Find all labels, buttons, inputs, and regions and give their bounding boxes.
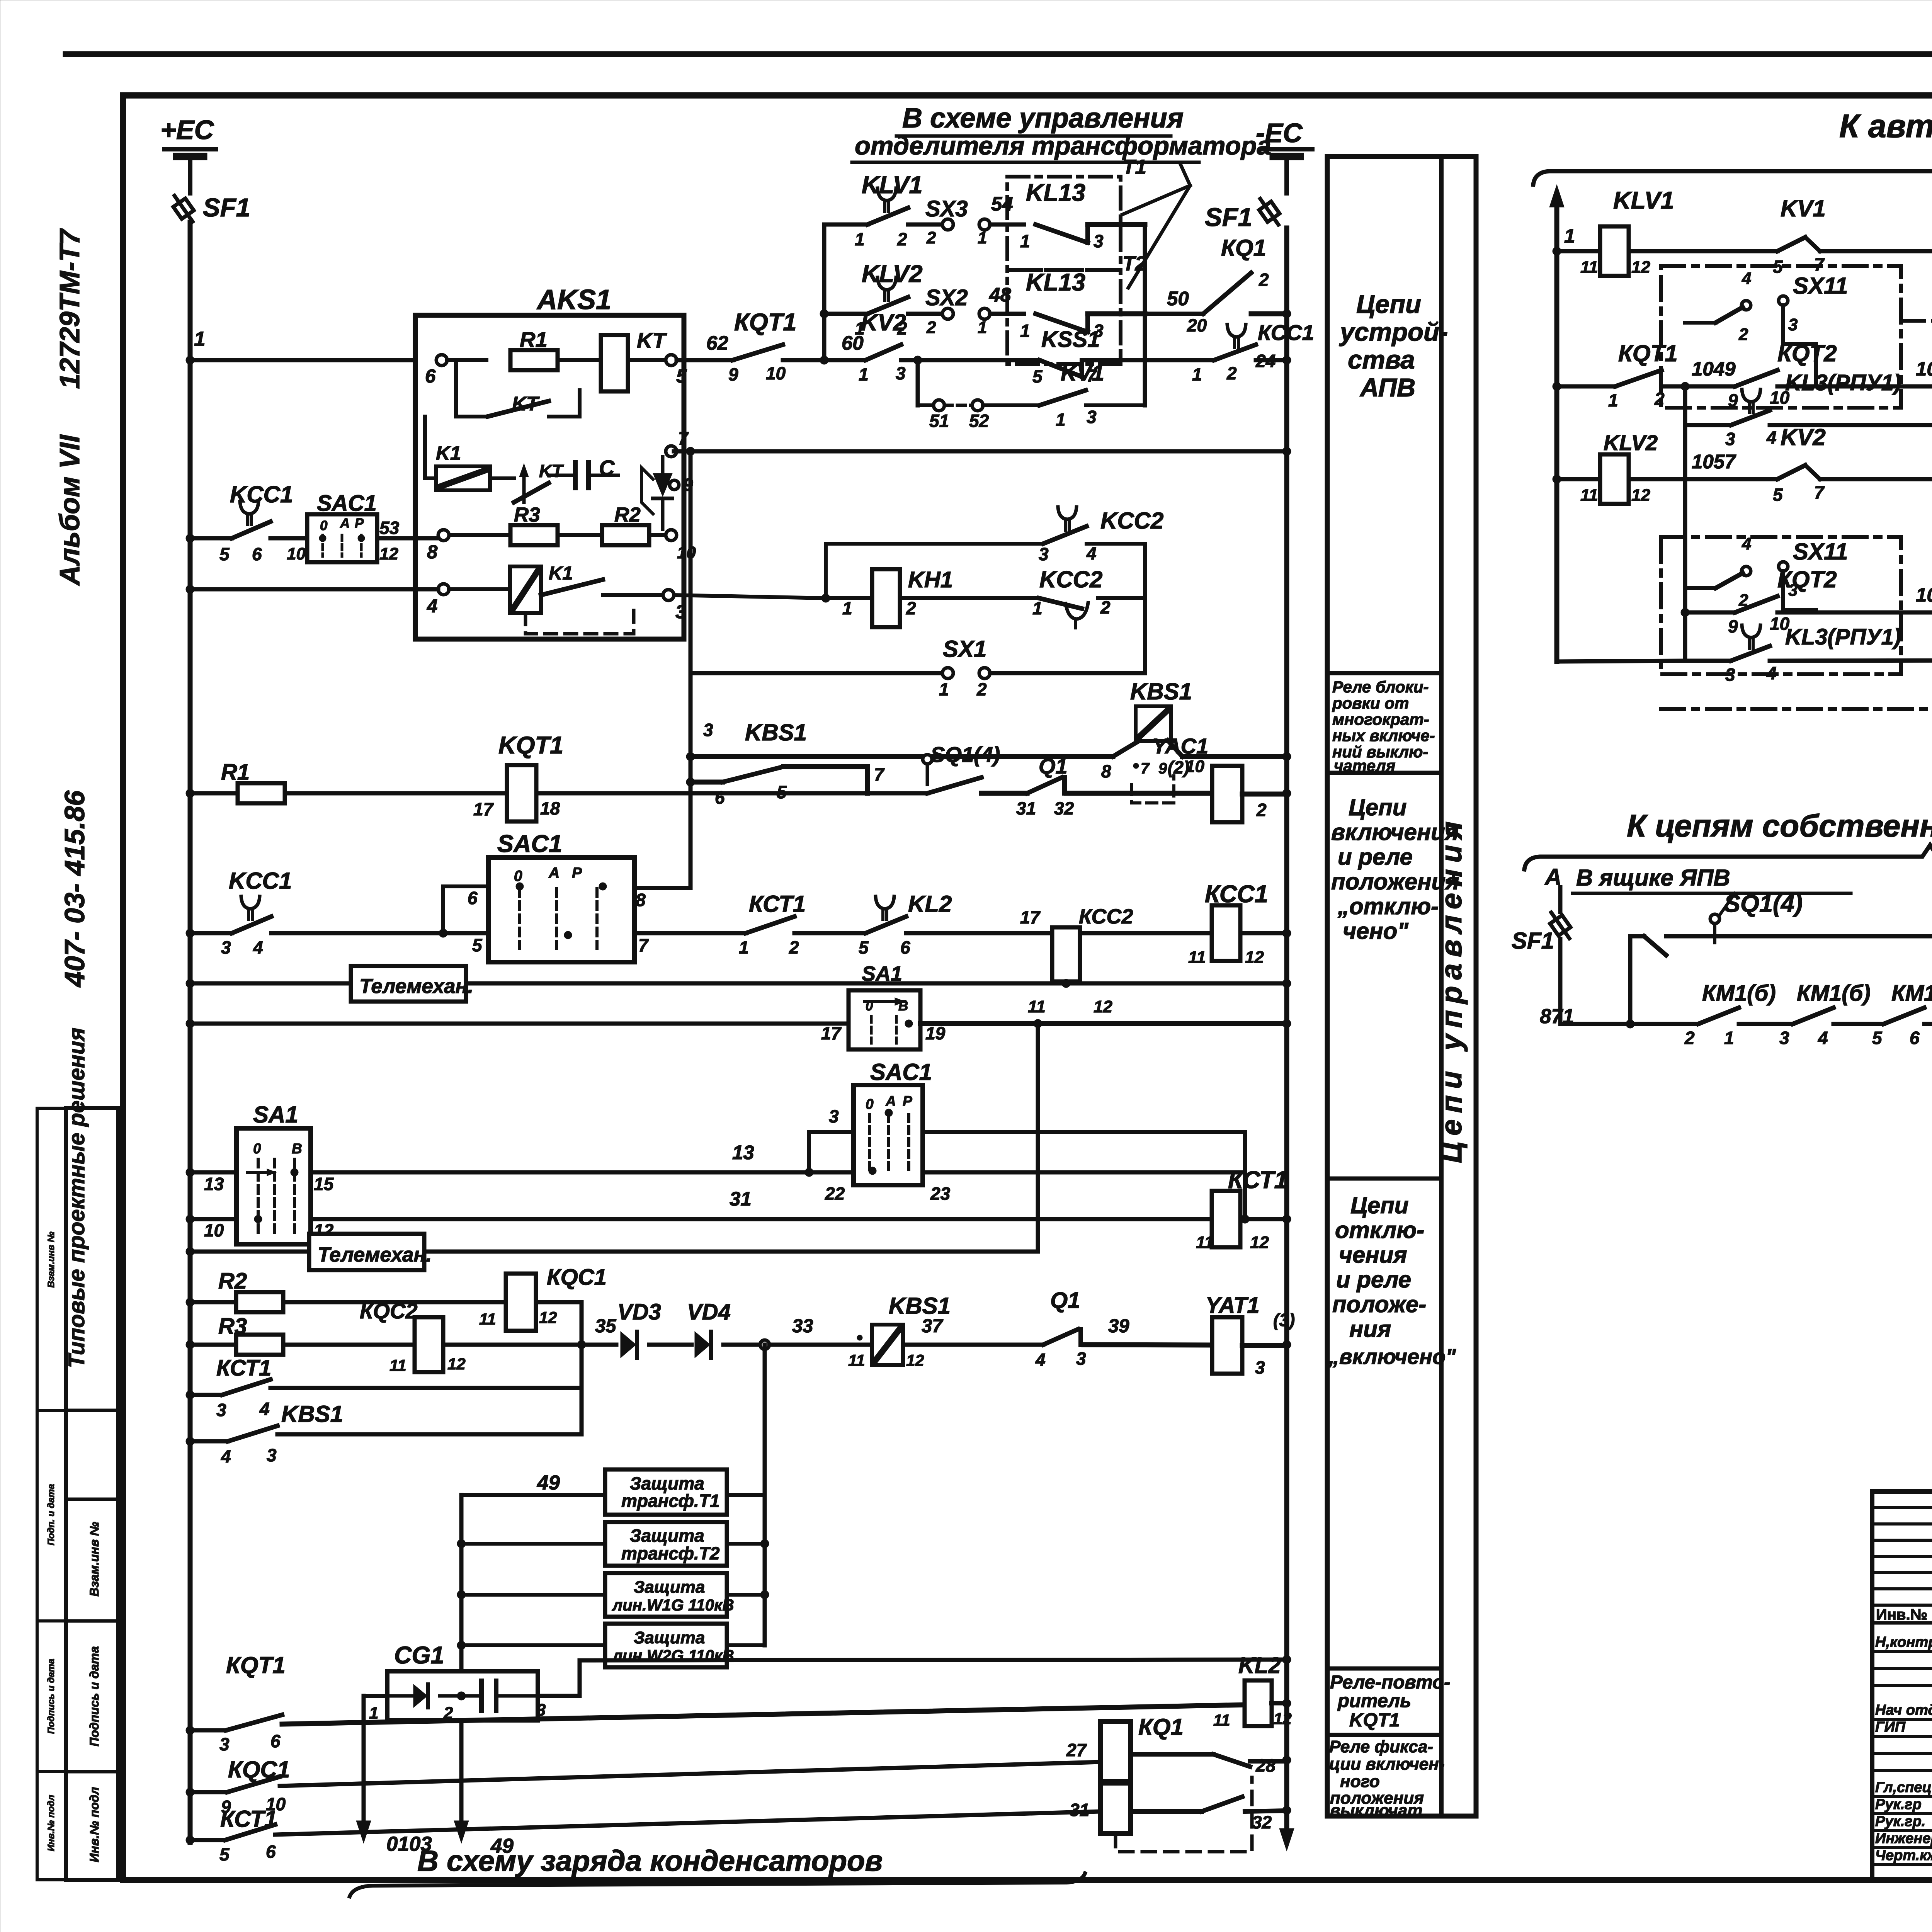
svg-text:чено": чено" (1343, 918, 1409, 944)
wire (1066, 791, 1212, 796)
svg-text:9: 9 (1158, 760, 1167, 777)
svg-text:КСТ1: КСТ1 (749, 891, 806, 917)
contact KBS1 block (848, 1293, 951, 1369)
wire (1243, 1132, 1247, 1219)
left stamp text Podpis (87, 1646, 101, 1746)
wire row motor (1560, 1022, 1630, 1026)
dashed link K1 (526, 603, 634, 634)
svg-text:ровки от: ровки от (1332, 694, 1409, 712)
svg-text:2: 2 (976, 679, 987, 699)
svg-text:KCC1: KCC1 (230, 481, 293, 507)
svg-text:SA1: SA1 (253, 1102, 298, 1128)
svg-text:3: 3 (675, 602, 686, 622)
relay YAT1 coil (1206, 1293, 1295, 1378)
wire (990, 223, 1024, 227)
svg-text:3: 3 (1725, 429, 1735, 449)
svg-text:31: 31 (730, 1188, 752, 1210)
title block role Нач отд. (1875, 1702, 1932, 1718)
wire (1143, 224, 1147, 405)
panel rotated tsepi upravleniya (1435, 815, 1468, 1163)
terminal SX3-2 (926, 219, 953, 247)
contact Q1 4-3 (1035, 1288, 1086, 1370)
svg-text:62: 62 (706, 332, 728, 354)
svg-text:ции включен-: ции включен- (1329, 1755, 1444, 1774)
svg-text:50: 50 (1167, 287, 1189, 310)
wire (444, 533, 510, 537)
relay KCC2 coil (1028, 905, 1133, 1016)
switch SAC1 b (472, 830, 649, 962)
contact KQ1 32 (1131, 1797, 1287, 1832)
wire SAC1b pin6 (443, 886, 488, 933)
contact KL3 RPU1 a (1725, 370, 1901, 449)
arrow 0103 (356, 1821, 432, 1855)
junction (1681, 382, 1689, 391)
svg-text:33: 33 (792, 1316, 813, 1337)
junction (1062, 929, 1070, 937)
contact KCT1 3-4 (190, 1355, 271, 1420)
junction (1034, 1019, 1042, 1028)
panel text APV (1339, 290, 1448, 402)
svg-text:8: 8 (636, 890, 646, 910)
svg-text:5: 5 (676, 366, 687, 387)
title block name row 0 (1872, 1650, 1932, 1653)
svg-text:1041: 1041 (1916, 358, 1932, 380)
contact KBS1 4-3 (190, 1401, 343, 1466)
svg-text:Рук.гр.: Рук.гр. (1875, 1813, 1925, 1830)
panel section line 3 (1327, 1177, 1441, 1181)
svg-text:Р: Р (572, 865, 582, 881)
junction (457, 1641, 466, 1650)
terminal SX3-1 (978, 219, 990, 247)
stub (461, 1493, 605, 1497)
svg-text:5: 5 (859, 937, 869, 957)
wire (558, 533, 602, 537)
junction (1282, 1340, 1291, 1349)
junction (1282, 1655, 1291, 1664)
wire (677, 332, 733, 360)
svg-text:Инв.№ подл: Инв.№ подл (46, 1795, 56, 1851)
vertical branch left (822, 224, 827, 360)
wire (190, 791, 237, 796)
title block name row 8 (1872, 1812, 1932, 1815)
wire net13 (311, 1141, 809, 1172)
svg-text:R2: R2 (614, 503, 641, 526)
pin 8 AKS1 (427, 530, 449, 563)
wire (311, 1188, 1212, 1219)
contact KQ1 20-2 (1187, 235, 1287, 335)
wire (440, 1694, 481, 1698)
svg-text:12: 12 (1631, 258, 1650, 277)
wire (536, 791, 927, 796)
svg-text:3: 3 (896, 363, 906, 383)
svg-text:1: 1 (978, 318, 987, 337)
left tiny text 4 (46, 1795, 56, 1851)
svg-text:11: 11 (479, 1310, 496, 1328)
svg-text:А: А (885, 1093, 896, 1109)
svg-text:Защита: Защита (630, 1526, 704, 1546)
wire (284, 1343, 414, 1347)
terminal 51 (929, 400, 949, 431)
breaker SF1 right (1254, 195, 1284, 229)
breaker SF1 motor left (1512, 887, 1575, 1024)
svg-text:SAC1: SAC1 (497, 830, 562, 857)
wire (920, 1021, 1287, 1026)
dashdot zone bottom (1661, 707, 1932, 711)
svg-text:1049: 1049 (1692, 358, 1736, 380)
svg-text:KQT1: KQT1 (1349, 1710, 1400, 1731)
panel section line 2 (1327, 771, 1441, 775)
resistor R1 (AKS1) (510, 327, 558, 370)
wire (983, 403, 1039, 407)
svg-text:11: 11 (1028, 997, 1046, 1016)
svg-text:11: 11 (389, 1356, 406, 1374)
svg-text:11: 11 (1213, 1711, 1230, 1729)
wire V1 (689, 451, 693, 888)
svg-text:SQ1(4): SQ1(4) (930, 742, 1000, 767)
svg-text:18: 18 (540, 798, 560, 818)
svg-text:7: 7 (638, 935, 649, 955)
svg-text:3: 3 (1788, 315, 1798, 334)
svg-text:и реле: и реле (1336, 1267, 1411, 1293)
svg-text:10: 10 (287, 544, 306, 563)
wire (190, 1250, 1038, 1254)
wire (447, 358, 486, 362)
wire (944, 404, 972, 407)
svg-text:KL13: KL13 (1026, 269, 1085, 296)
svg-text:1: 1 (1564, 225, 1575, 247)
svg-text:11: 11 (1188, 948, 1206, 967)
title block name row 3 (1872, 1718, 1932, 1721)
title block name row 4 (1872, 1735, 1932, 1738)
relay KL2 coil (1213, 1653, 1292, 1729)
wire (1629, 451, 1777, 479)
junction (457, 1692, 466, 1700)
svg-text:КQС1: КQС1 (547, 1265, 607, 1290)
wire (1662, 384, 1685, 389)
row r5 sx11-2 (1685, 611, 1735, 615)
wire SAC1c right top (923, 1130, 1245, 1134)
svg-text:KLV1: KLV1 (862, 172, 923, 199)
svg-text:3: 3 (703, 720, 713, 740)
svg-text:KT: KT (512, 393, 540, 415)
panel section line 4 (1327, 1667, 1441, 1671)
left tiny divider 3 (37, 1770, 66, 1773)
svg-text:KLV1: KLV1 (1613, 187, 1674, 214)
contact KV2 (859, 310, 906, 384)
svg-text:1: 1 (194, 328, 205, 350)
svg-text:устрой-: устрой- (1339, 318, 1448, 347)
wire (425, 417, 436, 478)
contact KQT2 9-10 b (1728, 566, 1837, 636)
svg-text:2: 2 (1256, 800, 1267, 820)
title block small row 5 (1872, 1587, 1932, 1590)
pin 9 AKS1 (670, 474, 693, 495)
stub (461, 1542, 605, 1546)
row r3 (1685, 423, 1731, 427)
svg-text:17: 17 (821, 1023, 842, 1043)
resistor R2 (AKS1) (602, 503, 649, 545)
title block small row 6 (1872, 1604, 1932, 1607)
svg-text:4: 4 (1742, 269, 1751, 288)
contact KCC2 nc (1032, 566, 1145, 628)
wire (783, 332, 866, 360)
junction (760, 1590, 769, 1599)
relay KLV2 coil (1580, 430, 1658, 505)
svg-text:SX11: SX11 (1793, 273, 1848, 299)
svg-text:2: 2 (1259, 270, 1269, 290)
svg-text:KSS1: KSS1 (1041, 327, 1100, 352)
wire net L2 (674, 449, 1287, 454)
pushbutton SQ1(4) (923, 742, 1000, 793)
left tiny text 1 (46, 1231, 56, 1288)
title block role Рук.гр. (1875, 1813, 1925, 1830)
label AKS1 (536, 284, 611, 315)
title block small row 4 (1872, 1571, 1932, 1574)
svg-text:3: 3 (1087, 407, 1097, 427)
svg-text:20: 20 (1187, 315, 1207, 335)
svg-text:В ящике ЯПВ: В ящике ЯПВ (1576, 865, 1730, 891)
junction (1282, 752, 1291, 761)
svg-text:SF1: SF1 (203, 193, 250, 222)
svg-text:49: 49 (537, 1471, 560, 1494)
contact KLV2 row (824, 260, 942, 338)
box Telemekhan 1 (351, 966, 473, 1002)
svg-text:1057: 1057 (1692, 451, 1736, 473)
svg-text:0: 0 (866, 1096, 874, 1112)
svg-text:КСТ1: КСТ1 (216, 1355, 271, 1381)
page top rule (66, 51, 1932, 57)
svg-text:31: 31 (1070, 1800, 1089, 1820)
svg-text:ГИП: ГИП (1875, 1719, 1906, 1735)
bottom note text (417, 1845, 883, 1878)
relay K1 coil (436, 442, 490, 490)
svg-text:2: 2 (1654, 389, 1665, 409)
left tiny text 3 (46, 1659, 56, 1734)
svg-text:K1: K1 (436, 442, 461, 464)
svg-text:3: 3 (219, 1734, 230, 1754)
junction (186, 1391, 194, 1399)
header brace 2 (1524, 845, 1932, 869)
relay KCC1 coil (1188, 881, 1268, 967)
svg-text:КСС1: КСС1 (1205, 881, 1268, 908)
relay KH1 coil (826, 567, 953, 627)
svg-text:В схему заряда конденсатор: В схему заряда конденсаторов (417, 1845, 883, 1878)
wire net31 (190, 1217, 236, 1221)
label 12 (379, 544, 398, 563)
svg-text:Н,контр.: Н,контр. (1875, 1634, 1932, 1650)
svg-text:54: 54 (991, 193, 1013, 215)
wire row 4295 (580, 1660, 1287, 1660)
svg-text:10: 10 (204, 1220, 224, 1240)
margin text Tipovye (64, 1027, 89, 1368)
wire (727, 1593, 765, 1597)
contact KL3 RPU1 b (1685, 624, 1901, 685)
left stamp divider 4 (66, 1770, 118, 1774)
svg-text:35: 35 (595, 1316, 616, 1337)
contact KCT1 (739, 891, 806, 957)
wire (190, 587, 438, 592)
svg-text:3: 3 (1725, 665, 1735, 685)
title block role Н,контр. (1875, 1634, 1932, 1650)
svg-text:КQС2: КQС2 (360, 1299, 418, 1323)
title block name row 7 (1872, 1795, 1932, 1798)
relay KLV1 coil (1580, 187, 1674, 277)
svg-text:SQ1(4): SQ1(4) (1724, 890, 1803, 917)
svg-text:4: 4 (1766, 427, 1777, 447)
title block outline left table (1872, 1492, 1932, 1880)
svg-text:7: 7 (1814, 482, 1825, 502)
wire (634, 931, 746, 935)
capacitor C (AKS1) (549, 456, 618, 488)
title line2 (855, 131, 1271, 160)
wire SAC1c pin3 (809, 1106, 854, 1172)
contact KQ1 28 (1131, 1754, 1287, 1776)
+EC supply label (160, 115, 214, 145)
header K tsepyam (1627, 808, 1932, 844)
svg-text:KQT1: KQT1 (498, 732, 563, 759)
svg-text:12: 12 (906, 1351, 924, 1369)
svg-text:KCC2: KCC2 (1039, 566, 1102, 592)
wire (1833, 1022, 1884, 1026)
svg-text:Q1: Q1 (1050, 1288, 1080, 1313)
wire (981, 791, 1027, 796)
wire (1082, 358, 1214, 362)
svg-text:32: 32 (1252, 1812, 1272, 1832)
panel text rele fiksatsii (1329, 1737, 1444, 1820)
svg-text:407- 03- 415.86: 407- 03- 415.86 (60, 790, 90, 988)
pin 3 AKS1 (663, 590, 686, 622)
svg-text:KV1: KV1 (1781, 196, 1826, 221)
svg-text:2: 2 (1738, 591, 1748, 610)
label SX3 (925, 193, 1013, 221)
battery +EC (165, 149, 216, 160)
contact KT (456, 360, 580, 417)
svg-text:Взам.инв №: Взам.инв № (87, 1522, 101, 1597)
contact KQT2 9-10 (1728, 340, 1837, 410)
wire (1240, 1217, 1287, 1221)
svg-text:многократ-: многократ- (1332, 710, 1429, 728)
svg-text:Нач отд.: Нач отд. (1875, 1702, 1932, 1718)
svg-text:чателя: чателя (1334, 757, 1395, 775)
junction (1626, 1020, 1634, 1028)
svg-text:KBS1: KBS1 (1130, 679, 1192, 704)
title block role Инженер (1875, 1830, 1932, 1847)
switch SAC1 c (825, 1059, 951, 1204)
junction (1282, 789, 1291, 798)
svg-text:лин.W1G 110кВ: лин.W1G 110кВ (612, 1596, 734, 1614)
svg-text:7: 7 (874, 764, 885, 784)
relay YAC1 coil (1152, 734, 1267, 822)
title block small row 3 (1872, 1555, 1932, 1558)
box Zashchita T1 (605, 1469, 727, 1515)
svg-text:3: 3 (1039, 544, 1049, 564)
svg-text:4: 4 (1086, 543, 1097, 563)
junction (760, 1539, 769, 1548)
node 3 marker (686, 720, 713, 761)
wire net1 (190, 358, 415, 362)
svg-text:KBS1: KBS1 (889, 1293, 951, 1319)
svg-text:11: 11 (1580, 258, 1598, 277)
panel text rele blokirovki (1332, 678, 1435, 775)
wire (1820, 477, 1932, 481)
arrow -EC bus bottom (1279, 1828, 1294, 1851)
svg-text:9: 9 (1728, 616, 1738, 636)
margin text 12729TM-T7 (54, 228, 85, 389)
left tiny divider 2 (37, 1619, 66, 1622)
svg-text:15: 15 (314, 1174, 334, 1194)
svg-text:Черт.кжст: Черт.кжст (1875, 1847, 1932, 1864)
svg-text:Защита: Защита (634, 1628, 705, 1647)
junction (186, 1168, 194, 1177)
contact KCC1 (190, 481, 307, 564)
title block row invno (1872, 1606, 1932, 1623)
wire row Q (280, 1762, 1100, 1786)
switch SAC1 a (307, 491, 377, 562)
svg-text:KL3(РПУ1): KL3(РПУ1) (1785, 624, 1901, 650)
contact KV1 (1039, 361, 1104, 430)
row r2 start (1553, 382, 1615, 391)
svg-text:3: 3 (1779, 1028, 1789, 1048)
header brace (1533, 159, 1932, 185)
-EC supply label (1256, 118, 1303, 148)
svg-text:1043: 1043 (1916, 584, 1932, 606)
wire (443, 931, 488, 935)
pin 6 AKS1 (425, 355, 447, 387)
wire (990, 671, 1145, 675)
dashdot box B (1661, 537, 1901, 674)
contact KM1 3-4 (1779, 981, 1871, 1048)
terminal (760, 1340, 769, 1349)
label SF1 (1205, 203, 1252, 232)
svg-text:52: 52 (969, 411, 989, 431)
svg-text:Рук.гр: Рук.гр (1875, 1796, 1922, 1813)
terminal SX2-2 (926, 308, 953, 337)
svg-text:SX11: SX11 (1793, 539, 1848, 565)
junction (821, 594, 830, 602)
label V yashchike YAPV left (1573, 865, 1851, 923)
svg-text:1: 1 (1724, 1028, 1734, 1048)
svg-text:КМ1(б): КМ1(б) (1797, 981, 1871, 1006)
thyristor VS (AKS1) (641, 457, 672, 529)
switch SA1 a (204, 1102, 334, 1244)
svg-text:(2): (2) (1168, 757, 1189, 777)
svg-text:48: 48 (989, 284, 1011, 306)
header K avtomatu SF1 (1839, 108, 1932, 144)
left stamp text Vzam (87, 1522, 101, 1597)
svg-text:трансф.Т1: трансф.Т1 (621, 1491, 720, 1511)
svg-text:АПВ: АПВ (1359, 373, 1415, 402)
row r4 (1553, 475, 1600, 483)
terminal SX1-1 (939, 668, 953, 699)
pin 7 AKS1 (666, 428, 689, 457)
wire (649, 1343, 692, 1347)
junction (577, 1340, 586, 1349)
left stamp divider 1 (66, 1409, 118, 1412)
title block name row 2 (1872, 1684, 1932, 1687)
svg-text:Реле-повто-: Реле-повто- (1330, 1672, 1450, 1693)
stub (461, 1593, 605, 1597)
junction (1282, 1699, 1291, 1708)
svg-text:4: 4 (259, 1399, 270, 1419)
junction (1282, 1806, 1291, 1815)
svg-text:8: 8 (427, 542, 438, 563)
svg-text:32: 32 (1054, 798, 1074, 818)
svg-text:CG1: CG1 (394, 1642, 444, 1669)
wire (582, 1316, 616, 1345)
svg-text:53: 53 (379, 518, 400, 538)
contact KQT1 1-2 (1608, 340, 1678, 410)
row r6 (1557, 661, 1685, 662)
